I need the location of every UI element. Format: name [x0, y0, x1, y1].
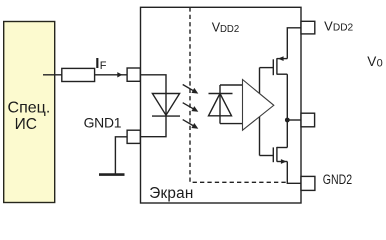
resistor R (series LED resistor) [62, 68, 95, 81]
wire: IC to resistor [43, 74, 62, 76]
svg-text:GND2: GND2 [323, 172, 352, 188]
NMOS source arrowhead [281, 159, 287, 164]
svg-text:GND1: GND1 [84, 114, 122, 130]
pin VDD2 (top right) [301, 21, 315, 34]
pin 2 (cathode / GND1) [127, 130, 140, 143]
PMOS gate connection [260, 67, 274, 69]
wire: VDD2 pin to PMOS source [287, 28, 301, 59]
light arrow 2 [183, 103, 199, 112]
output node junction dot [285, 118, 290, 123]
svg-text:F: F [100, 60, 107, 72]
light arrow 3 [183, 120, 199, 129]
wire: output node to Vo pin [287, 119, 301, 121]
shield dashed boundary (Экран) [190, 7, 287, 182]
photodiode D2 axis wire [219, 85, 221, 124]
pin Vo (output) [301, 113, 315, 127]
NMOS Q2 channel bar [276, 147, 278, 162]
IC block (Спец. ИС) yellow box [4, 22, 55, 203]
wire: photodiode bottom rail to amp [220, 123, 243, 125]
svg-text:DD2: DD2 [220, 24, 240, 35]
LED D1 cathode bar [152, 115, 180, 117]
optocoupler package box [141, 7, 302, 203]
IF current arrowhead [117, 72, 122, 77]
svg-text:0: 0 [377, 57, 383, 69]
LED D1 triangle (anode top) [152, 94, 179, 116]
PMOS Q1 channel bar [276, 58, 278, 74]
gate drive vertical line (behind amp) [259, 68, 261, 156]
PMOS Q1 drain (bottom) [277, 73, 287, 75]
svg-text:V: V [324, 19, 333, 34]
svg-text:DD2: DD2 [333, 23, 354, 34]
pin 1 (anode input) [127, 68, 140, 81]
ground GND1 symbol [99, 173, 125, 176]
photodiode D2 cathode bar [209, 93, 233, 95]
amplifier U1 triangle [243, 80, 274, 131]
wire: PMOS drain down to output node [286, 74, 288, 120]
wire: photodiode top rail to amp [220, 84, 243, 86]
wire: output node up from NMOS drain [286, 120, 288, 148]
NMOS Q2 gate bar [272, 147, 274, 162]
svg-text:V: V [367, 54, 376, 69]
NMOS Q2 source (bottom, arrow to rail) [277, 161, 287, 163]
wire: NMOS source down to GND2 pin [287, 162, 301, 184]
pin GND2 (bottom right) [301, 176, 315, 190]
PMOS Q1 source (top, arrow to channel) [277, 58, 287, 60]
NMOS gate connection [260, 155, 274, 157]
PMOS Q1 gate bar [272, 59, 274, 75]
svg-text:ИС: ИС [15, 116, 37, 133]
NMOS Q2 drain (top) [277, 147, 287, 149]
PMOS source arrowhead [278, 56, 284, 61]
wire: GND1 pin to ground [115, 137, 127, 174]
wire: resistor to pin 1 with IF arrow [95, 74, 128, 76]
wire: LED cathode to pin 2 [141, 116, 167, 137]
svg-text:Спец.: Спец. [8, 99, 51, 116]
svg-text:Экран: Экран [149, 185, 193, 202]
photodiode D2 triangle (pointing up) [209, 94, 232, 116]
wire: pin1 to LED anode [141, 75, 167, 116]
light arrow 1 [183, 85, 199, 94]
